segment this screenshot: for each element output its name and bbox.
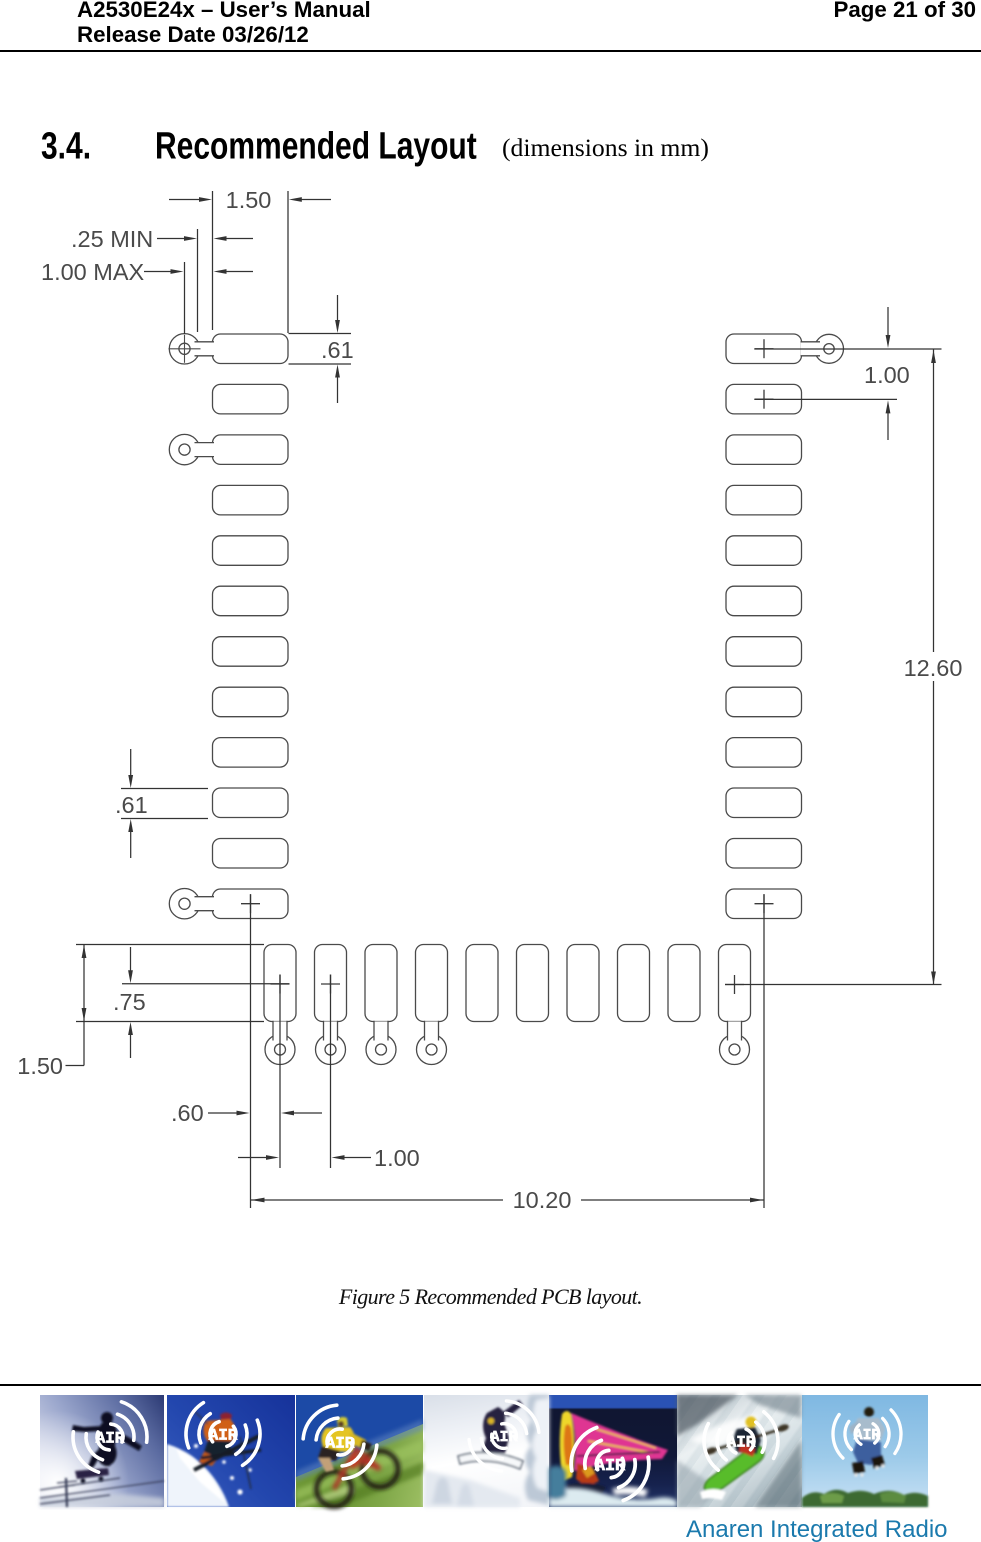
wire: extension line from pad BR12 center down xyxy=(763,894,765,1208)
pad L7 (left column) xyxy=(213,637,289,667)
pad L3 (left column) xyxy=(213,435,289,465)
pad R2 (right column) xyxy=(726,384,802,414)
pad B7 (bottom row) xyxy=(567,945,599,1022)
wire: bottom edge line of bottom pad row xyxy=(76,1021,264,1023)
pad B3 (bottom row) xyxy=(365,945,397,1022)
wire: centerline from pad R1 through via to dimension line xyxy=(754,348,941,350)
wire: centerline from pad R2 xyxy=(754,398,897,400)
header page number xyxy=(833,0,976,22)
pad L8 (left column) xyxy=(213,687,289,717)
svg-text:AIR: AIR xyxy=(727,1434,756,1452)
header rule xyxy=(0,50,981,52)
AIR logo 6 xyxy=(700,1410,782,1472)
wire: top edge line of bottom pad row xyxy=(76,944,264,946)
via hole at pad R1 xyxy=(815,334,844,363)
svg-text:.60: .60 xyxy=(171,1100,204,1126)
pad R8 (right column) xyxy=(726,687,802,717)
photo 7: inline skater xyxy=(849,1407,885,1477)
wire: centerline from bottom pad B10 xyxy=(725,984,942,986)
pad L9 (left column) xyxy=(213,738,289,768)
pad B4 (bottom row) xyxy=(416,945,448,1022)
pad L5 (left column) xyxy=(213,536,289,566)
via hole below pad B3 xyxy=(366,1035,396,1065)
via hole below pad B10 xyxy=(720,1035,750,1065)
svg-text:10.20: 10.20 xyxy=(513,1187,572,1213)
AIR logo 1 xyxy=(66,1397,154,1477)
AIR logo 5 xyxy=(564,1423,656,1505)
header title xyxy=(77,0,371,47)
photo 3 background (biker field) xyxy=(296,1395,423,1507)
photo 3: mountain biker xyxy=(317,1449,399,1507)
svg-text:AIR: AIR xyxy=(326,1435,355,1453)
wire: extension line from pad BL1 center down xyxy=(250,894,252,1208)
center mark of pad B2 xyxy=(321,983,340,985)
svg-text:.25 MIN: .25 MIN xyxy=(71,226,153,252)
pad L6 (left column) xyxy=(213,586,289,616)
pad R5 (right column) xyxy=(726,536,802,566)
pad L4 (left column) xyxy=(213,485,289,515)
pad L1 (left column) xyxy=(213,334,289,364)
photo 4 background (snow) xyxy=(424,1395,549,1507)
pad R10 (right column) xyxy=(726,788,802,818)
pad R6 (right column) xyxy=(726,586,802,616)
section heading xyxy=(41,125,91,169)
center mark of pad R1 xyxy=(755,348,774,350)
photo 3: sky above hillside xyxy=(296,1395,423,1477)
dimension 12.60 (column height) xyxy=(933,349,935,985)
svg-text:1.50: 1.50 xyxy=(226,187,272,213)
via hole with crosshair at pad L1 xyxy=(169,334,199,364)
AIR logo 2 xyxy=(180,1400,265,1468)
photo 2: skier xyxy=(193,1410,261,1489)
Anaren Integrated Radio wordmark xyxy=(686,1516,948,1542)
svg-text:.75: .75 xyxy=(113,989,146,1015)
dimension 1.50 (pad width, top) xyxy=(212,191,214,330)
pad L2 (left column) xyxy=(213,384,289,414)
svg-text:1.50: 1.50 xyxy=(17,1053,63,1079)
svg-text:AIR: AIR xyxy=(854,1428,881,1444)
dimension .61 (pad height, left) xyxy=(121,788,208,790)
pad B9 (bottom row) xyxy=(668,945,700,1022)
svg-text:1.00: 1.00 xyxy=(374,1145,420,1171)
pad R3 (right column) xyxy=(726,435,802,465)
pad R4 (right column) xyxy=(726,485,802,515)
dimension .61 (pad height, upper right) xyxy=(289,333,352,335)
via hole below pad B4 xyxy=(417,1035,447,1065)
photo 6 background (rapids) xyxy=(677,1395,802,1507)
svg-text:AIR: AIR xyxy=(595,1457,626,1476)
center mark of pad L12 xyxy=(241,903,260,905)
pad L11 (left column) xyxy=(213,839,289,869)
pad L12 (left column) xyxy=(213,889,289,919)
photo 2 background (skier sky) xyxy=(167,1395,295,1507)
AIR logo 4 xyxy=(463,1395,544,1477)
dimension 10.20 (row width) xyxy=(251,1199,504,1201)
AIR logo 3 xyxy=(297,1399,383,1485)
svg-text:12.60: 12.60 xyxy=(904,655,963,681)
dimension 1.00 (right pad pitch) xyxy=(887,307,889,335)
center mark of pad B1 xyxy=(271,983,290,985)
svg-text:AIR: AIR xyxy=(490,1428,518,1446)
photo 1 background (skateboarder sky) xyxy=(40,1395,164,1507)
photo 5: foam xyxy=(549,1466,677,1507)
svg-text:.61: .61 xyxy=(321,337,354,363)
via hole at pad L3 xyxy=(169,434,199,464)
via hole below pad B1 xyxy=(265,1035,295,1065)
svg-text:1.00 MAX: 1.00 MAX xyxy=(41,259,145,285)
pad L10 (left column) xyxy=(213,788,289,818)
dimension 1.00 (bottom pad pitch) xyxy=(238,1157,267,1159)
pad B10 (bottom row) xyxy=(719,945,751,1022)
photo 1: ground band xyxy=(40,1494,164,1507)
photo 7: trees strip xyxy=(802,1490,928,1507)
pad R9 (right column) xyxy=(726,738,802,768)
photo 3: grass streaks xyxy=(296,1440,423,1507)
pad B1 (bottom row) xyxy=(264,945,296,1022)
pad R11 (right column) xyxy=(726,839,802,869)
pad B5 (bottom row) xyxy=(466,945,498,1022)
center mark of pad R12 xyxy=(755,903,774,905)
via hole at pad L12 xyxy=(169,889,199,919)
photo 4: snowy tree right xyxy=(424,1395,549,1507)
photo 6: rapids shading xyxy=(677,1395,801,1507)
figure caption xyxy=(0,1284,981,1310)
svg-text:AIR: AIR xyxy=(209,1427,238,1445)
center mark of pad R2 xyxy=(755,398,774,400)
dimension .75 (centerline offset) xyxy=(130,947,132,974)
svg-text:.61: .61 xyxy=(115,792,148,818)
photo 6: kayaker xyxy=(700,1417,790,1501)
photo 1: skateboarder silhouette xyxy=(72,1412,142,1483)
wire: extension line from bottom pad B2 center xyxy=(330,975,332,1169)
pad B6 (bottom row) xyxy=(517,945,549,1022)
wire: horizontal centerline through bottom pads B1-B2 xyxy=(122,983,290,985)
photo 5 background (sea) xyxy=(549,1395,677,1507)
pad B2 (bottom row) xyxy=(315,945,347,1022)
pad R12 (right column) xyxy=(726,889,802,919)
pad R7 (right column) xyxy=(726,637,802,667)
photo 4: snowboarder xyxy=(458,1400,523,1469)
pad B8 (bottom row) xyxy=(618,945,650,1022)
footer rule xyxy=(0,1384,981,1386)
svg-text:AIR: AIR xyxy=(96,1430,125,1448)
via hole below pad B2 xyxy=(316,1035,346,1065)
photo 5: windsurf sail and rider xyxy=(560,1411,668,1494)
AIR logo 7 xyxy=(831,1409,903,1459)
wire: extension line from bottom pad B1 center xyxy=(279,975,281,1169)
footer figures and logos xyxy=(0,1390,981,1542)
photo 1: power lines and pole xyxy=(40,1478,164,1507)
photo 7 background (sky) xyxy=(802,1395,928,1507)
pad R1 (right column) xyxy=(726,334,802,364)
center mark of pad B10 xyxy=(725,984,744,986)
dimension 1.50 (bottom pad length, lower left) xyxy=(83,945,85,1066)
photo 2: snow slope xyxy=(167,1444,252,1507)
svg-text:1.00: 1.00 xyxy=(864,362,910,388)
